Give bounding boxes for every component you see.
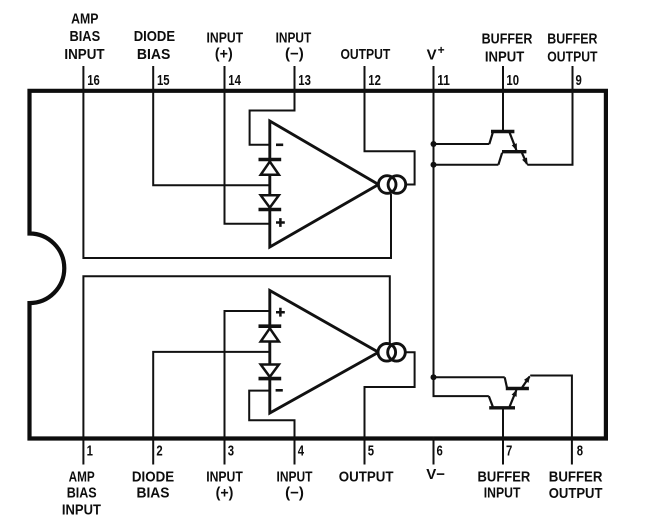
wire: Q2 collector to V+ rail: [434, 164, 499, 166]
svg-text:11: 11: [437, 72, 450, 89]
svg-text:V−: V−: [426, 466, 445, 483]
A2 non-inverting input marker (+): [276, 308, 285, 317]
svg-text:BUFFER: BUFFER: [549, 468, 603, 485]
svg-text:INPUT: INPUT: [484, 484, 521, 501]
current source CS2 (double circle) at A2 output: [378, 344, 396, 362]
svg-text:(+): (+): [215, 46, 233, 63]
svg-text:V: V: [427, 46, 437, 63]
svg-text:OUTPUT: OUTPUT: [340, 46, 390, 63]
wire: Q4 collector to rail: [434, 376, 505, 378]
wire: pin 15 DIODE BIAS lead to D1/D2 junction: [153, 66, 270, 185]
wire: pin 4 INPUT(-) lead, loop to A2 - input: [249, 391, 294, 465]
svg-text:3: 3: [228, 443, 234, 460]
A1 non-inverting input marker (+): [276, 218, 285, 227]
wire: pin 1 AMP BIAS INPUT lead up to A2 current-mirror feed: [83, 276, 389, 464]
svg-text:BIAS: BIAS: [67, 484, 97, 501]
svg-text:INPUT: INPUT: [64, 46, 104, 63]
svg-text:7: 7: [506, 443, 512, 460]
A1 inverting input marker (-): [276, 144, 283, 147]
svg-text:INPUT: INPUT: [485, 49, 524, 66]
wire: pin 2 DIODE BIAS lead to D3/D4 junction: [153, 352, 270, 465]
wire: pin 3 INPUT(+) lead to A2 + input: [225, 311, 270, 465]
svg-text:OUTPUT: OUTPUT: [549, 485, 603, 502]
svg-text:+: +: [438, 43, 445, 57]
svg-text:(−): (−): [285, 485, 304, 502]
svg-text:9: 9: [576, 72, 582, 89]
svg-text:BUFFER: BUFFER: [547, 30, 597, 47]
svg-text:BIAS: BIAS: [137, 484, 170, 501]
diode D1 (cathode up, on A1 - input): [259, 158, 282, 162]
A2 inverting input marker (-): [276, 389, 283, 392]
wire: pin 13 INPUT(-) lead, loop to A1 - input: [250, 66, 295, 145]
svg-text:INPUT: INPUT: [207, 29, 244, 46]
wire: pin 9 BUFFER OUTPUT lead from Q2 emitter: [527, 66, 572, 165]
wire: pin 7 BUFFER INPUT lead to Q3 base: [502, 408, 504, 465]
svg-text:BUFFER: BUFFER: [482, 30, 533, 47]
transistor Q2 (buffer output, emitter to pin 9): [498, 152, 527, 166]
svg-text:DIODE: DIODE: [134, 28, 175, 45]
svg-text:OUTPUT: OUTPUT: [339, 469, 394, 486]
current source CS1 (double circle) at A1 output: [378, 176, 396, 194]
svg-text:5: 5: [368, 443, 374, 460]
transistor Q4 (buffer output, emitter to pin 8): [505, 375, 531, 388]
wire: Q1 collector to V+ rail: [434, 143, 490, 145]
junction dot: rail / Q4 collector: [431, 374, 437, 380]
svg-text:BUFFER: BUFFER: [478, 468, 531, 485]
svg-text:INPUT: INPUT: [206, 468, 243, 485]
junction dot: V+ / Q1 collector: [431, 141, 437, 147]
svg-text:1: 1: [87, 443, 93, 460]
svg-text:DIODE: DIODE: [132, 468, 174, 485]
transistor Q3 (buffer input, base pin 7): [489, 389, 517, 408]
svg-text:6: 6: [437, 443, 443, 460]
svg-text:AMP: AMP: [71, 10, 98, 27]
svg-text:10: 10: [506, 72, 519, 89]
diode D4 (cathode down, on A2 - input): [261, 365, 279, 377]
svg-text:(+): (+): [216, 485, 234, 502]
svg-text:INPUT: INPUT: [276, 29, 312, 46]
op-amp A1 triangle: [270, 121, 379, 247]
svg-text:BIAS: BIAS: [137, 46, 171, 63]
svg-text:13: 13: [298, 72, 311, 89]
junction dot: V+ / Q2 collector: [431, 162, 437, 168]
svg-text:8: 8: [577, 443, 583, 460]
svg-text:INPUT: INPUT: [277, 468, 313, 485]
svg-text:14: 14: [228, 72, 241, 89]
svg-text:(−): (−): [285, 46, 304, 63]
wire: pin 16 AMP BIAS INPUT lead down to A1 current-mirror feed: [83, 66, 391, 258]
svg-text:2: 2: [156, 443, 162, 460]
wire: pin 6 V- stub: [433, 437, 435, 465]
svg-text:OUTPUT: OUTPUT: [547, 49, 597, 66]
wire: pin 8 BUFFER OUTPUT lead from Q4 emitter: [530, 376, 572, 465]
IC package outline with pin-1 index notch: [30, 91, 606, 439]
svg-text:INPUT: INPUT: [62, 501, 101, 518]
transistor Q1 (buffer input, base pin 10): [489, 132, 517, 152]
wire: V+ rail pin 11 lead down to lower buffer (net V+): [434, 66, 489, 396]
diode D2 (cathode down, on A1 + input): [261, 195, 279, 207]
wire: pin 5 OUTPUT lead to A2 current source: [365, 352, 415, 464]
op-amp A2 triangle: [270, 291, 379, 414]
svg-text:16: 16: [87, 72, 100, 89]
svg-text:AMP: AMP: [69, 468, 95, 485]
wire: pin 10 BUFFER INPUT lead to Q1 base: [502, 66, 504, 132]
wire: pin 14 INPUT(+) lead to A1 + input: [225, 66, 270, 224]
wire: pin 12 OUTPUT lead to A1 current source: [365, 66, 415, 185]
svg-text:15: 15: [157, 72, 170, 89]
diode D3 (cathode up, on A2 + input): [259, 324, 282, 328]
svg-text:BIAS: BIAS: [69, 28, 100, 45]
svg-text:4: 4: [298, 443, 305, 460]
svg-text:12: 12: [368, 72, 381, 89]
